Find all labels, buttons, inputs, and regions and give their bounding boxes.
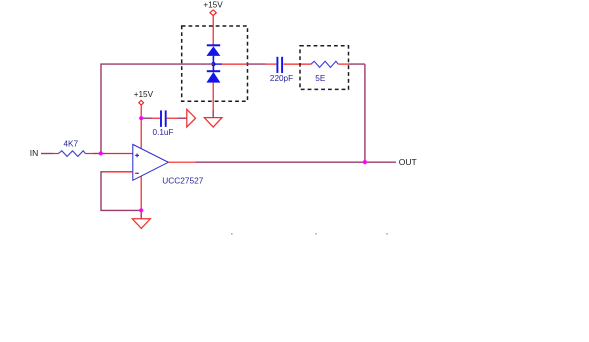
wire +15V down to op-amp top pin <box>140 105 142 148</box>
wire minus input stub <box>105 171 133 173</box>
junction dot (ground node) <box>139 208 143 212</box>
dashed box around gate resistor <box>300 46 349 90</box>
svg-text:4K7: 4K7 <box>64 140 79 149</box>
op-amp U1 triangle <box>133 144 169 180</box>
svg-text:5E: 5E <box>315 74 326 83</box>
dashed box around clamp diodes <box>182 26 248 101</box>
svg-text:IN: IN <box>30 148 39 158</box>
junction dot (input node) <box>99 151 103 155</box>
junction dot (output node) <box>363 160 367 164</box>
svg-text:0.1uF: 0.1uF <box>153 128 174 137</box>
grid dot 3 <box>386 233 388 235</box>
op-amp - mark <box>135 172 139 174</box>
wire feedback right side down to output node <box>364 64 366 162</box>
terminal (tail, right-pointing) <box>187 109 196 127</box>
junction node between diodes (blue dot) <box>211 62 215 66</box>
ground symbol (clamp) <box>204 118 222 128</box>
wire +15V down to clamp diode D1 <box>212 16 214 46</box>
wire feedback: node left and down to input junction <box>101 64 213 152</box>
power terminal +15V (op-amp supply) <box>139 100 144 105</box>
power terminal +15V (top) <box>210 10 216 16</box>
resistor R2 5E (zigzag) <box>311 61 339 67</box>
capacitor C1 0.1uF <box>161 110 166 127</box>
svg-text:+15V: +15V <box>203 0 223 9</box>
ground symbol (op-amp) <box>132 219 150 229</box>
wire C2 to resistor R2 <box>284 63 311 65</box>
op-amp + mark <box>135 154 139 158</box>
svg-text:UCC27527: UCC27527 <box>162 176 203 186</box>
wire node to capacitor C2 <box>222 63 246 65</box>
grid dot 1 <box>231 233 233 235</box>
wire IN stub <box>41 153 53 155</box>
svg-text:OUT: OUT <box>399 157 417 167</box>
resistor R1 4K7 (zigzag) <box>58 151 85 157</box>
wire node stub (blue) <box>213 63 222 65</box>
wire op-amp ground pin down <box>140 176 142 210</box>
wire feedback loop (minus input to ground node) <box>101 172 141 211</box>
capacitor C2 220pF <box>277 57 282 73</box>
wire op-amp output <box>168 161 195 163</box>
wire supply node to capacitor C1 <box>142 117 153 119</box>
svg-text:220pF: 220pF <box>270 74 293 83</box>
grid dot 2 <box>315 233 317 235</box>
junction dot (supply node) <box>139 116 143 120</box>
wire R2 to corner <box>338 63 348 65</box>
wire junction to op-amp + input <box>102 153 106 155</box>
wire C1 to terminal <box>167 117 178 119</box>
diode D1 (upper clamp diode) <box>206 45 220 64</box>
wire R1 to input junction <box>86 153 94 155</box>
wire D2 anode down to ground <box>212 83 214 110</box>
svg-text:+15V: +15V <box>134 90 154 99</box>
diode D2 (lower clamp diode) <box>206 64 220 83</box>
